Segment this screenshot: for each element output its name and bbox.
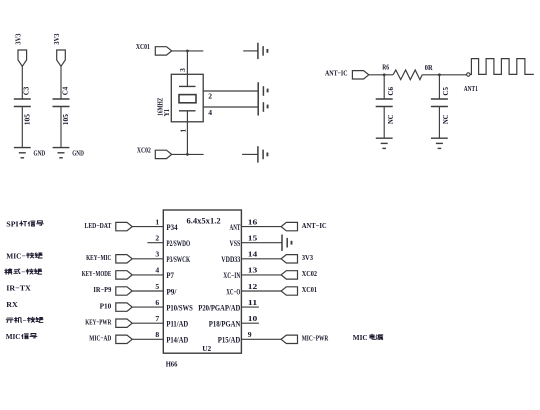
svg-text:3V3: 3V3 [302,253,313,262]
svg-text:2: 2 [155,234,159,243]
pin 13 wire to XC02 [241,274,281,276]
crystal bottom plate [179,110,196,112]
ground (C3 branch) [14,147,31,149]
wire power to cap [60,66,62,99]
svg-text:P10: P10 [100,301,112,310]
svg-text:GND: GND [72,148,84,157]
wire cap to ground [21,107,23,148]
svg-text:−: − [23,316,27,325]
svg-text:5: 5 [155,282,159,291]
junction node B (C5 tap) [438,73,441,76]
svg-text:P3/SWCK: P3/SWCK [166,255,190,264]
svg-text:R6: R6 [382,62,389,71]
pin 2 wire of Y1 [203,90,257,92]
svg-text:P18/PGAN: P18/PGAN [209,320,241,329]
svg-text:XC02: XC02 [137,145,151,154]
wire node to C6 [383,75,385,99]
wire KEY−PWR to pin [132,322,163,324]
junction node A (C6 tap) [383,73,386,76]
PCB antenna meander ANT1 [470,59,534,75]
svg-text:11: 11 [248,298,258,307]
wire KEY−MIC to pin [132,258,163,260]
svg-text:GND: GND [34,148,46,157]
svg-text:SPI: SPI [6,219,18,228]
svg-text:XC01: XC01 [136,42,150,51]
svg-text:14: 14 [248,250,258,259]
svg-text:MIC−PWR: MIC−PWR [302,334,329,343]
svg-text:ANT−IC: ANT−IC [302,221,327,230]
wire MIC−AD to pin [132,338,163,340]
svg-text:C3: C3 [22,87,31,96]
svg-text:C5: C5 [441,87,450,96]
svg-text:KEY−MODE: KEY−MODE [82,269,112,278]
net flag KEY−MODE [116,271,132,279]
svg-text:KEY−PWR: KEY−PWR [85,317,111,326]
capacitor C5 [431,98,448,100]
svg-text:−: − [21,268,25,277]
svg-text:C6: C6 [386,87,395,96]
svg-text:7: 7 [155,314,159,323]
wire cap to ground [60,107,62,148]
svg-text:P10/SWS: P10/SWS [166,303,193,312]
ground (C6 branch) [376,137,393,139]
pin 9 wire to MIC-PWR [241,338,281,340]
pin 14 wire to 3V3 [241,258,281,260]
crystal element rectangle [179,95,196,103]
svg-text:12: 12 [248,282,258,291]
capacitor C4 [53,98,70,100]
wire IR−P9 to pin [132,290,163,292]
wire node to C5 [438,75,440,99]
wire KEY−MODE to pin [132,274,163,276]
capacitor C6 [376,98,393,100]
svg-text:0R: 0R [425,63,433,72]
pin 1 wire (crystal bottom) [186,122,188,155]
svg-text:IR−TX: IR−TX [6,284,31,293]
net flag XC01 right [281,287,297,295]
svg-text:P7: P7 [166,271,174,280]
svg-text:13: 13 [248,266,258,275]
wire C6 to ground [383,107,385,139]
wire flag to node A [369,74,393,76]
pin 16 wire to ANT-IC [241,226,281,228]
svg-text:RX: RX [6,300,18,309]
svg-text:105: 105 [61,114,70,125]
wire XC02 [172,153,204,155]
svg-text:LED−DAT: LED−DAT [85,221,112,230]
antenna feed terminal circle [467,73,470,76]
svg-text:4: 4 [155,266,159,275]
stub bottom plate to box [186,111,188,122]
svg-text:VDD33: VDD33 [221,255,240,264]
wire power to cap [21,66,23,99]
svg-text:3V3: 3V3 [13,33,22,44]
svg-text:1: 1 [155,217,159,226]
svg-text:H66: H66 [166,359,178,368]
svg-text:MIC: MIC [353,333,368,342]
wire LED−DAT to pin [132,226,163,228]
svg-text:XC−O: XC−O [226,287,240,296]
net flag KEY−MIC [116,255,132,263]
ground (C5 branch) [431,137,448,139]
svg-text:1: 1 [179,129,188,133]
svg-text:6: 6 [155,298,159,307]
net flag LED−DAT [116,222,132,230]
svg-text:XC02: XC02 [302,269,317,278]
svg-text:6.4x5x1.2: 6.4x5x1.2 [187,216,221,225]
svg-text:3V3: 3V3 [52,33,61,44]
svg-text:MIC−AD: MIC−AD [89,334,111,343]
pin 2 stub wire [147,242,163,244]
svg-text:XC01: XC01 [302,285,317,294]
svg-text:VSS: VSS [230,239,241,248]
pin 12 wire to XC01 [241,290,281,292]
pin 11 stub wire [241,306,259,308]
net flag KEY−PWR [116,319,132,327]
svg-text:P9/: P9/ [166,287,177,296]
svg-text:U2: U2 [202,344,211,353]
net flag MIC−AD [116,335,132,343]
svg-text:ANT1: ANT1 [464,84,478,93]
power flag 3V3 (C3 branch) [18,50,27,66]
wire XC01 to node [172,50,204,52]
svg-text:P15/AD: P15/AD [218,336,241,345]
svg-text:KEY−MIC: KEY−MIC [86,253,111,262]
svg-text:ANT: ANT [230,223,241,232]
ground (C4 branch) [53,147,70,149]
svg-text:9: 9 [248,330,252,339]
wire P10 to pin [132,306,163,308]
sideways ground near XC02 [242,153,258,155]
svg-text:3: 3 [155,250,159,259]
resistor R6 [393,70,422,80]
junction on XC01 wire [186,50,189,53]
net flag XC02 right [281,271,297,279]
IC U2 body [163,210,241,353]
capacitor C3 [14,98,31,100]
svg-text:IR−P9: IR−P9 [93,285,111,294]
wire C5 to ground [438,107,440,139]
svg-text:3: 3 [178,68,187,72]
wire resistor to node B [422,74,466,76]
sideways ground near XC01 [243,50,257,52]
net flag 3V3 right [281,255,297,263]
svg-text:P2/SWDO: P2/SWDO [166,239,190,248]
chinese label KEY−MODE row [5,269,12,274]
pin 3 wire (crystal top) [186,51,188,87]
pin 10 stub wire [241,322,259,324]
svg-text:105: 105 [22,114,31,125]
svg-text:P20/PGAP/AD: P20/PGAP/AD [198,303,240,312]
net flag P10 [116,303,132,311]
svg-text:ANT−IC: ANT−IC [325,69,348,78]
svg-text:8: 8 [155,330,159,339]
svg-text:4: 4 [208,108,212,117]
svg-text:NC: NC [441,114,450,124]
svg-text:10: 10 [248,314,258,323]
svg-text:2: 2 [208,92,212,101]
svg-text:15: 15 [248,234,258,243]
svg-text:NC: NC [386,114,395,124]
net flag IR−P9 [116,287,132,295]
svg-text:C4: C4 [60,87,69,96]
svg-text:XC−IN: XC−IN [223,271,240,280]
crystal top plate [179,85,196,87]
crystal Y1 body box [171,74,203,122]
svg-text:MIC−: MIC− [6,252,25,261]
svg-text:P34: P34 [166,223,177,232]
pin 15 wire to ground [241,242,281,244]
shared sideways ground for pins 2/4 [257,82,259,115]
net flag MIC-PWR [281,335,297,343]
svg-text:P14/AD: P14/AD [166,336,188,345]
sideways ground at VSS [281,235,283,251]
chinese label KEY−PWR row [6,318,13,323]
svg-text:16: 16 [248,217,258,226]
net flag ANT-IC right [281,222,297,230]
svg-text:P11/AD: P11/AD [166,320,188,329]
svg-text:MIC: MIC [6,332,21,341]
power flag 3V3 (C4 branch) [57,50,66,66]
pin 4 wire of Y1 [203,106,257,108]
svg-text:Y1: Y1 [162,109,171,117]
junction on XC02 wire [186,153,189,156]
